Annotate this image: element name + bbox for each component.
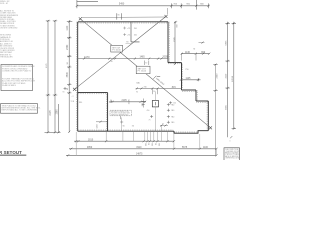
svg-text:740: 740 bbox=[144, 87, 147, 89]
svg-text:0: 0 bbox=[230, 141, 231, 143]
svg-text:2105: 2105 bbox=[129, 99, 131, 105]
wall bottom right step bbox=[174, 131, 208, 134]
top dimension line main bbox=[77, 0, 210, 10]
svg-text:3665: 3665 bbox=[226, 104, 228, 110]
bottom dim 1 tick crosses bbox=[75, 140, 175, 142]
svg-text:1145: 1145 bbox=[186, 78, 192, 80]
second level top dim line bbox=[81, 16, 166, 19]
svg-text:4170: 4170 bbox=[84, 56, 90, 59]
svg-text:90: 90 bbox=[67, 62, 69, 64]
garage small dim y121.8 bbox=[96, 121, 108, 123]
hatch ticks along slab edges bbox=[77, 22, 208, 132]
svg-text:3830: 3830 bbox=[67, 71, 69, 77]
bottom dim line 3 y155.3 bbox=[66, 154, 217, 156]
wall wing horizontal y100.4 bbox=[196, 100, 208, 102]
garage dim crosses left x141-145 bbox=[142, 99, 144, 108]
svg-text:REPORT AND ALL TO BE CONFIRMED: REPORT AND ALL TO BE CONFIRMED bbox=[2, 109, 39, 112]
svg-text:90: 90 bbox=[67, 88, 69, 90]
svg-text:4110: 4110 bbox=[226, 73, 228, 78]
svg-text:14875: 14875 bbox=[136, 153, 143, 155]
right extension tick at 215.5,90.6 bbox=[213, 90, 217, 92]
extension stubs top dims bbox=[172, 0, 209, 10]
left dim tick crosses bbox=[68, 21, 70, 133]
wall passage bottom edge bbox=[168, 62, 182, 64]
small cross marker left of pier bbox=[150, 115, 153, 118]
left lower dim lines x48 x55 x58.7 bbox=[45, 21, 61, 132]
diagonal D2 (upper X) bbox=[75, 16, 167, 89]
wing vertical stubs below y53.7 bbox=[182, 54, 196, 61]
svg-text:90: 90 bbox=[118, 15, 120, 17]
svg-text:5490: 5490 bbox=[119, 3, 125, 6]
svg-text:450: 450 bbox=[147, 110, 150, 112]
pier square column bbox=[152, 101, 158, 107]
garage dim line y101.8 bbox=[109, 101, 146, 103]
wall right edge upper bbox=[167, 22, 169, 63]
left lower dim crosses bbox=[47, 20, 60, 134]
svg-text:2. SETOUT TO BLDG: 2. SETOUT TO BLDG bbox=[225, 154, 240, 156]
extension line up from top-right cross bbox=[167, 8, 169, 15]
left lower dim bottom connector bbox=[45, 131, 61, 133]
passage vertical dim x175 bbox=[174, 22, 176, 65]
dashed conduit note box bbox=[110, 110, 132, 116]
wall garage right internal edge bbox=[107, 93, 109, 132]
svg-text:3010: 3010 bbox=[88, 139, 94, 141]
svg-text:150: 150 bbox=[134, 35, 137, 37]
wall wing vertical x197 bbox=[195, 90, 197, 101]
svg-text:90: 90 bbox=[111, 61, 113, 63]
wall wing right edge bbox=[207, 101, 209, 131]
top dimension line upper short bbox=[77, 1, 98, 3]
svg-text:8110: 8110 bbox=[137, 147, 143, 149]
svg-text:PT. 10x10: PT. 10x10 bbox=[138, 71, 146, 73]
left lower dim top ticks bbox=[46, 20, 57, 22]
svg-text:CHECKED ON SITE: CHECKED ON SITE bbox=[226, 151, 240, 153]
svg-text:90: 90 bbox=[153, 91, 155, 93]
svg-text:90: 90 bbox=[193, 48, 195, 50]
far right dim line x233.8 bbox=[233, 22, 235, 129]
svg-text:+75: +75 bbox=[127, 35, 130, 37]
bottom dim line 2 y148.8 bbox=[69, 148, 217, 150]
svg-text:150: 150 bbox=[134, 28, 137, 30]
note paragraph 3 left bbox=[0, 35, 15, 59]
svg-text:90: 90 bbox=[136, 92, 138, 94]
small step dim above bottom edge bbox=[160, 125, 168, 127]
svg-text:90: 90 bbox=[154, 143, 156, 145]
wall wing horizontal y88.7 bbox=[182, 89, 197, 91]
svg-text:90: 90 bbox=[145, 63, 147, 65]
svg-text:ON SITE CHECKED: ON SITE CHECKED bbox=[0, 27, 18, 29]
note paragraph 1 top-left bbox=[0, 1, 10, 5]
setout cross top-left bbox=[79, 17, 82, 20]
wing dim line y53.7 bbox=[181, 53, 210, 55]
bottom dim line 1 y141.2 bbox=[74, 140, 174, 142]
setout cross bottom-right bbox=[209, 126, 212, 129]
wing dim y53.7 ticks bbox=[181, 53, 211, 55]
far right dim line x227.6 bbox=[227, 22, 229, 138]
svg-text:2440: 2440 bbox=[216, 73, 218, 79]
svg-text:2340: 2340 bbox=[67, 44, 69, 50]
left dim tick horizontals bbox=[67, 38, 71, 93]
svg-text:90: 90 bbox=[162, 124, 164, 126]
diagonal D1 (long setout diagonal) bbox=[80, 19, 210, 128]
svg-text:+75: +75 bbox=[127, 28, 130, 30]
svg-text:5410: 5410 bbox=[96, 124, 98, 128]
svg-text:BAL: BAL bbox=[137, 82, 140, 85]
wing dim line y88.5 bbox=[136, 88, 182, 90]
pad markers column x168.4 bbox=[167, 103, 170, 124]
left dimension line x69.2 bbox=[67, 20, 73, 132]
second level dim ticks x116.8 x121.5 bbox=[117, 13, 122, 19]
interior dim y58.6 tick crosses bbox=[83, 58, 163, 60]
wall garage top internal edge bbox=[78, 92, 108, 94]
wall left edge bbox=[77, 22, 79, 131]
setout cross top-right bbox=[165, 15, 168, 18]
svg-text:SLAB DETAILS: SLAB DETAILS bbox=[2, 84, 17, 87]
svg-text:150: 150 bbox=[173, 102, 176, 104]
right extension line x215.5 bbox=[215, 64, 217, 155]
note box bottom-right bbox=[224, 148, 240, 161]
wing dim line y79.8 (1145) bbox=[181, 79, 201, 81]
svg-text:90: 90 bbox=[147, 143, 149, 145]
left dim top tick horizontal bbox=[67, 21, 73, 23]
note paragraph 2 left bbox=[0, 10, 19, 30]
wall wing left vertical bbox=[181, 63, 183, 90]
svg-text:1100: 1100 bbox=[203, 147, 209, 149]
svg-text:90: 90 bbox=[63, 91, 65, 93]
svg-text:900: 900 bbox=[158, 143, 160, 146]
svg-text:1485: 1485 bbox=[140, 57, 146, 59]
svg-text:75: 75 bbox=[149, 120, 151, 122]
svg-text:900: 900 bbox=[177, 24, 179, 27]
svg-text:5835: 5835 bbox=[226, 40, 228, 46]
pier centre line vertical bbox=[154, 92, 156, 132]
svg-text:THE BUILDER: THE BUILDER bbox=[0, 57, 13, 59]
svg-text:SOIL: M: SOIL: M bbox=[0, 3, 8, 5]
svg-text:PT. 10x10: PT. 10x10 bbox=[112, 50, 120, 52]
svg-text:1130: 1130 bbox=[185, 52, 191, 54]
bottom extension verticals bbox=[76, 126, 216, 155]
svg-text:2105: 2105 bbox=[50, 110, 52, 116]
svg-text:PRIOR TO WORKS: PRIOR TO WORKS bbox=[225, 153, 239, 155]
svg-text:750: 750 bbox=[185, 69, 188, 71]
svg-text:1560: 1560 bbox=[56, 109, 58, 115]
svg-text:4850: 4850 bbox=[87, 147, 93, 149]
wing dim stubs below bbox=[152, 89, 157, 95]
interior level marks +75 row1 bbox=[123, 27, 126, 36]
title underline bbox=[0, 154, 26, 157]
building outline (hatched slab edge) bbox=[78, 22, 209, 133]
wall bottom edge bbox=[78, 130, 174, 132]
extension line x76.9 top bbox=[76, 0, 78, 8]
note box 2 left bbox=[1, 104, 38, 114]
interior dim line y58.6 bbox=[78, 58, 168, 60]
internal wall line x131 bbox=[131, 22, 140, 42]
svg-text:900: 900 bbox=[151, 143, 153, 146]
small marks near bottom-left corner bbox=[64, 87, 67, 90]
right extension tick at 215.5,64.6 bbox=[213, 64, 217, 66]
svg-text:5675: 5675 bbox=[182, 147, 188, 149]
marker cross at 170.6,102.8 bbox=[169, 101, 172, 104]
conduit leader tail bbox=[119, 116, 121, 119]
svg-text:FFL: FFL bbox=[79, 102, 82, 104]
top dim tick marks bbox=[76, 5, 210, 7]
note box 1 left bbox=[1, 65, 33, 91]
far right dim top ticks bbox=[225, 23, 236, 128]
interior small vertical dim x144.5-149 bbox=[145, 61, 149, 66]
left lower dim mid ticks y95 bbox=[46, 94, 57, 96]
svg-text:90: 90 bbox=[110, 100, 112, 102]
svg-text:900: 900 bbox=[144, 143, 146, 146]
svg-text:12610: 12610 bbox=[232, 75, 234, 82]
svg-text:CONNECTED FLOOR PLAN TO: CONNECTED FLOOR PLAN TO bbox=[2, 69, 32, 72]
svg-text:R SETOUT: R SETOUT bbox=[0, 150, 22, 155]
tick mark at 202,42.6 bbox=[199, 42, 205, 44]
svg-text:1585: 1585 bbox=[174, 36, 176, 42]
svg-text:2105: 2105 bbox=[122, 100, 128, 102]
tick on diagonal bbox=[153, 76, 160, 79]
pier inner mark bbox=[154, 102, 156, 105]
svg-text:1100: 1100 bbox=[67, 25, 69, 31]
label box A on diagonal bbox=[111, 45, 123, 52]
cross below conduit box bbox=[120, 121, 123, 124]
svg-text:2005: 2005 bbox=[163, 57, 169, 59]
setout cross lower-left bbox=[73, 88, 76, 91]
label box B on diagonal bbox=[136, 66, 150, 74]
wall top edge bbox=[78, 21, 168, 23]
